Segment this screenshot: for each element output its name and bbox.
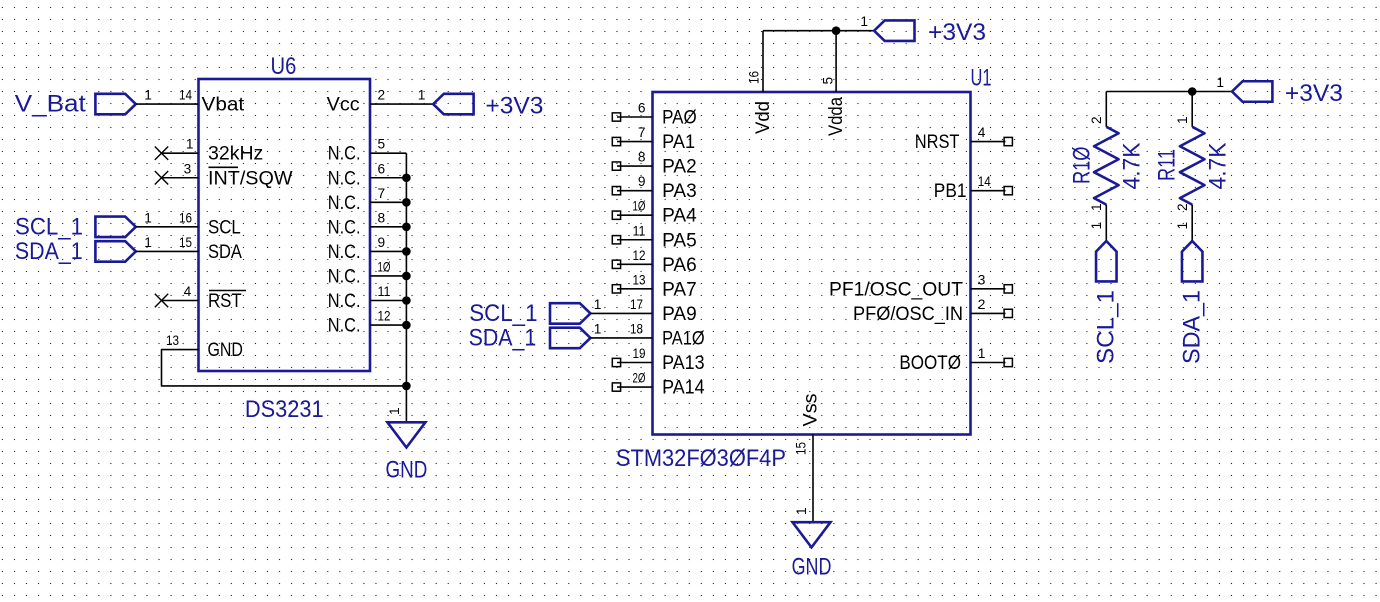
svg-text:Vdd: Vdd bbox=[753, 101, 774, 134]
U1 pin 9 wire bbox=[617, 190, 653, 192]
junction on bus at pin 7 bbox=[402, 198, 411, 207]
U1 pin 7 terminal square bbox=[612, 137, 620, 145]
IC U1 body bbox=[653, 92, 971, 435]
svg-text:1: 1 bbox=[594, 297, 602, 312]
wire SDA_1 to U1 pin 18 bbox=[590, 337, 652, 339]
svg-text:14: 14 bbox=[179, 88, 192, 103]
U6 pin 6 wire (N.C.) bbox=[370, 177, 406, 179]
svg-text:NRST: NRST bbox=[915, 132, 960, 153]
svg-text:PA5: PA5 bbox=[662, 230, 697, 251]
svg-text:9: 9 bbox=[638, 174, 646, 189]
svg-text:15: 15 bbox=[179, 235, 192, 250]
junction Vdda / +3V3 rail bbox=[832, 26, 841, 35]
svg-text:2Ø: 2Ø bbox=[633, 371, 646, 386]
U1 pin 2Ø wire bbox=[617, 386, 653, 388]
svg-text:PA3: PA3 bbox=[662, 181, 697, 202]
power tag +3V3 (right) bbox=[1232, 81, 1272, 102]
svg-text:PF1/OSC_OUT: PF1/OSC_OUT bbox=[829, 279, 963, 300]
U1 pin 1Ø wire bbox=[617, 214, 653, 216]
IC U6 body bbox=[199, 79, 371, 371]
U1 pin 11 terminal square bbox=[612, 236, 620, 244]
svg-text:6: 6 bbox=[378, 161, 386, 176]
svg-text:1: 1 bbox=[387, 407, 402, 415]
junction on bus at pin 6 bbox=[402, 173, 411, 182]
svg-text:PAØ: PAØ bbox=[662, 108, 697, 129]
U1 pin 8 terminal square bbox=[612, 162, 620, 170]
svg-text:DS3231: DS3231 bbox=[245, 396, 324, 423]
svg-text:+3V3: +3V3 bbox=[485, 93, 543, 120]
U1 pin 13 wire bbox=[617, 288, 653, 290]
no-connect X on pin 4 bbox=[155, 294, 168, 307]
resistor R10 bbox=[1094, 127, 1119, 205]
U6 pin 4 wire (RST) bbox=[162, 300, 199, 302]
U1 pin 12 wire bbox=[617, 263, 653, 265]
svg-text:15: 15 bbox=[794, 442, 809, 455]
svg-text:R11: R11 bbox=[1153, 149, 1180, 181]
U1 Vss pin wire bbox=[812, 435, 814, 523]
ground symbol U1 bbox=[793, 522, 831, 547]
svg-text:2: 2 bbox=[378, 88, 386, 103]
net tag V_Bat bbox=[95, 94, 135, 115]
svg-text:RST: RST bbox=[208, 291, 242, 312]
svg-text:PA7: PA7 bbox=[662, 279, 697, 300]
wire SCL_1 to U6 pin 16 bbox=[136, 226, 199, 228]
svg-text:SCL_1: SCL_1 bbox=[15, 213, 83, 240]
junction bus / GND pin 13 wire bbox=[402, 382, 411, 391]
svg-text:SCL_1: SCL_1 bbox=[469, 300, 537, 327]
svg-text:32kHz: 32kHz bbox=[208, 144, 263, 165]
U1 right pin 3 wire bbox=[971, 288, 1006, 290]
U1 pin 11 wire bbox=[617, 239, 653, 241]
svg-text:Vcc: Vcc bbox=[327, 95, 360, 116]
U1 right pin 14 wire bbox=[971, 190, 1006, 192]
svg-text:1: 1 bbox=[144, 210, 152, 225]
U1 pin 13 terminal square bbox=[612, 285, 620, 293]
svg-text:GND: GND bbox=[208, 340, 243, 361]
U1 right pin 1 terminal square bbox=[1004, 358, 1012, 366]
svg-text:N.C.: N.C. bbox=[328, 168, 361, 189]
svg-text:1: 1 bbox=[594, 321, 602, 336]
svg-text:N.C.: N.C. bbox=[328, 291, 361, 312]
svg-text:PA13: PA13 bbox=[662, 353, 705, 374]
svg-text:1: 1 bbox=[1089, 203, 1104, 211]
svg-text:5: 5 bbox=[378, 137, 386, 152]
svg-text:8: 8 bbox=[638, 150, 646, 165]
U6 pin 12 wire (N.C.) bbox=[370, 324, 406, 326]
svg-text:PA2: PA2 bbox=[662, 157, 697, 178]
U6 pin 2 wire (Vcc) bbox=[370, 103, 433, 105]
svg-text:5: 5 bbox=[820, 77, 835, 85]
svg-text:11: 11 bbox=[378, 284, 391, 299]
N.C. ground bus wire bbox=[405, 153, 407, 422]
U6 pin 7 wire (N.C.) bbox=[370, 201, 406, 203]
svg-text:1: 1 bbox=[794, 507, 809, 515]
U1 Vdda pin wire bbox=[835, 31, 837, 92]
svg-text:1: 1 bbox=[1089, 222, 1104, 230]
svg-text:U1: U1 bbox=[971, 65, 992, 92]
svg-text:N.C.: N.C. bbox=[328, 266, 361, 287]
U1 pin 12 terminal square bbox=[612, 260, 620, 268]
svg-text:7: 7 bbox=[378, 186, 386, 201]
svg-text:2: 2 bbox=[1175, 203, 1190, 211]
U6 pin 10 wire (N.C.) bbox=[370, 275, 406, 277]
U6 pin 3 wire (INT/SQW) bbox=[162, 177, 199, 179]
svg-text:3: 3 bbox=[184, 161, 192, 176]
svg-text:2: 2 bbox=[1089, 116, 1104, 124]
U1 right pin 4 wire bbox=[971, 141, 1006, 143]
svg-text:1: 1 bbox=[978, 346, 986, 361]
svg-text:3: 3 bbox=[978, 272, 986, 287]
svg-text:N.C.: N.C. bbox=[328, 144, 361, 165]
net tag SDA_1 (U1) bbox=[550, 328, 590, 349]
wire R11 to SDA_1 tag bbox=[1191, 205, 1193, 241]
U1 pin 9 terminal square bbox=[612, 187, 620, 195]
svg-text:Vdda: Vdda bbox=[826, 97, 847, 136]
svg-text:19: 19 bbox=[633, 346, 646, 361]
U1 right pin 2 wire bbox=[971, 312, 1006, 314]
U1 pin 6 wire bbox=[617, 116, 653, 118]
junction on bus at pin 12 bbox=[402, 321, 411, 330]
svg-text:SDA_1: SDA_1 bbox=[1179, 290, 1206, 364]
svg-text:BOOTØ: BOOTØ bbox=[899, 353, 961, 374]
net tag SCL_1 (right) bbox=[1096, 241, 1117, 281]
svg-text:Vbat: Vbat bbox=[202, 95, 245, 116]
U1 pin 8 wire bbox=[617, 165, 653, 167]
net tag SCL_1 (U1) bbox=[550, 303, 590, 324]
svg-text:SDA_1: SDA_1 bbox=[15, 238, 83, 265]
svg-text:SDA_1: SDA_1 bbox=[469, 324, 537, 351]
U6 pin 9 wire (N.C.) bbox=[370, 250, 406, 252]
svg-text:9: 9 bbox=[378, 235, 386, 250]
svg-text:GND: GND bbox=[792, 553, 832, 580]
junction R11 / rail bbox=[1188, 87, 1197, 96]
svg-text:2: 2 bbox=[978, 297, 986, 312]
svg-text:13: 13 bbox=[166, 333, 179, 348]
power tag +3V3 at Vcc bbox=[433, 94, 473, 115]
svg-text:PA1Ø: PA1Ø bbox=[662, 328, 705, 349]
svg-text:V_Bat: V_Bat bbox=[15, 91, 86, 118]
svg-text:1: 1 bbox=[144, 235, 152, 250]
junction on bus at pin 10 bbox=[402, 272, 411, 281]
svg-text:N.C.: N.C. bbox=[328, 193, 361, 214]
svg-text:1: 1 bbox=[186, 137, 194, 152]
svg-text:16: 16 bbox=[179, 210, 192, 225]
wire U6 GND pin 13 to ground bus bbox=[162, 350, 407, 386]
U6 pin 11 wire (N.C.) bbox=[370, 300, 406, 302]
svg-text:1: 1 bbox=[860, 14, 868, 29]
svg-text:PA9: PA9 bbox=[662, 304, 697, 325]
svg-text:STM32FØ3ØF4P: STM32FØ3ØF4P bbox=[616, 445, 786, 472]
svg-text:4.7K: 4.7K bbox=[1119, 143, 1146, 190]
svg-text:GND: GND bbox=[386, 457, 428, 484]
svg-text:4.7K: 4.7K bbox=[1205, 143, 1232, 190]
svg-text:8: 8 bbox=[378, 210, 386, 225]
svg-text:1: 1 bbox=[418, 88, 426, 103]
svg-text:1: 1 bbox=[144, 88, 152, 103]
wire SDA_1 to U6 pin 15 bbox=[136, 250, 199, 252]
svg-text:1Ø: 1Ø bbox=[633, 199, 646, 214]
svg-text:N.C.: N.C. bbox=[328, 217, 361, 238]
svg-text:4: 4 bbox=[978, 125, 986, 140]
U1 right pin 4 terminal square bbox=[1004, 137, 1012, 145]
no-connect X on pin 3 bbox=[155, 171, 168, 184]
U1 pin 1Ø terminal square bbox=[612, 211, 620, 219]
svg-text:1: 1 bbox=[1216, 75, 1224, 90]
svg-text:INT/SQW: INT/SQW bbox=[208, 168, 293, 189]
svg-text:PA14: PA14 bbox=[662, 378, 705, 399]
svg-text:U6: U6 bbox=[271, 53, 297, 80]
svg-text:PA1: PA1 bbox=[662, 132, 695, 153]
U1 pin 19 terminal square bbox=[612, 358, 620, 366]
wire SCL_1 to U1 pin 17 bbox=[590, 312, 652, 314]
svg-text:1: 1 bbox=[1175, 116, 1190, 124]
resistor R11 bbox=[1180, 127, 1205, 205]
svg-text:17: 17 bbox=[630, 297, 643, 312]
svg-text:12: 12 bbox=[633, 248, 646, 263]
svg-text:18: 18 bbox=[630, 321, 643, 336]
wire V_Bat to U6 pin 14 bbox=[136, 103, 199, 105]
svg-text:6: 6 bbox=[638, 101, 646, 116]
wire rail to R11 bbox=[1191, 92, 1193, 127]
svg-text:N.C.: N.C. bbox=[328, 242, 361, 263]
svg-text:R1Ø: R1Ø bbox=[1069, 147, 1096, 185]
svg-text:11: 11 bbox=[633, 223, 646, 238]
net tag SDA_1 bbox=[95, 241, 135, 262]
U1 right pin 3 terminal square bbox=[1004, 285, 1012, 293]
ground symbol U6 bbox=[387, 422, 425, 447]
net tag SDA_1 (right) bbox=[1182, 241, 1203, 281]
U6 pin 5 wire (N.C.) bbox=[370, 152, 406, 154]
U1 pin 19 wire bbox=[617, 362, 653, 364]
svg-text:4: 4 bbox=[184, 284, 192, 299]
svg-text:SCL_1: SCL_1 bbox=[1093, 290, 1120, 364]
svg-text:12: 12 bbox=[378, 309, 391, 324]
U1 Vdd pin wire bbox=[762, 31, 764, 92]
svg-text:SDA: SDA bbox=[208, 242, 242, 263]
wire Vdd rail to +3V3 tag bbox=[763, 30, 874, 32]
U6 pin 1 wire (32kHz) bbox=[162, 152, 199, 154]
svg-text:SCL: SCL bbox=[208, 217, 241, 238]
svg-text:+3V3: +3V3 bbox=[1285, 80, 1343, 107]
svg-text:13: 13 bbox=[633, 272, 646, 287]
svg-text:N.C.: N.C. bbox=[328, 316, 361, 337]
svg-text:1Ø: 1Ø bbox=[378, 259, 391, 274]
svg-text:16: 16 bbox=[747, 71, 762, 84]
wire R10 to SCL_1 tag bbox=[1105, 205, 1107, 241]
svg-text:PA6: PA6 bbox=[662, 255, 697, 276]
U1 right pin 1 wire bbox=[971, 362, 1006, 364]
U1 pin 6 terminal square bbox=[612, 113, 620, 121]
svg-text:7: 7 bbox=[638, 125, 646, 140]
power tag +3V3 (top) bbox=[874, 20, 914, 41]
svg-text:1: 1 bbox=[1175, 222, 1190, 230]
svg-text:PFØ/OSC_IN: PFØ/OSC_IN bbox=[853, 304, 963, 325]
junction on bus at pin 9 bbox=[402, 247, 411, 256]
svg-text:Vss: Vss bbox=[801, 394, 822, 427]
svg-text:14: 14 bbox=[978, 174, 991, 189]
junction on bus at pin 11 bbox=[402, 296, 411, 305]
svg-text:+3V3: +3V3 bbox=[928, 19, 986, 46]
U1 right pin 14 terminal square bbox=[1004, 187, 1012, 195]
svg-text:PA4: PA4 bbox=[662, 206, 697, 227]
net tag SCL_1 bbox=[95, 217, 135, 238]
U1 pin 2Ø terminal square bbox=[612, 383, 620, 391]
U1 pin 7 wire bbox=[617, 141, 653, 143]
junction on bus at pin 8 bbox=[402, 223, 411, 232]
U1 right pin 2 terminal square bbox=[1004, 309, 1012, 317]
U6 pin 8 wire (N.C.) bbox=[370, 226, 406, 228]
no-connect X on pin 1 bbox=[155, 147, 168, 160]
svg-text:PB1: PB1 bbox=[934, 181, 967, 202]
wire rail to R10 bbox=[1105, 92, 1107, 127]
+3V3 rail wire (right) bbox=[1106, 91, 1232, 93]
